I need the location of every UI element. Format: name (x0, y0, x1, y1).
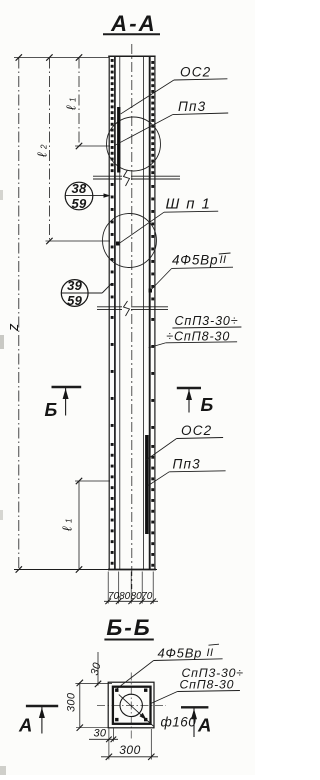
node section marker Б right (177, 387, 201, 389)
wire leader Шп1 (120, 212, 165, 243)
svg-text:80: 80 (119, 591, 131, 602)
svg-text:÷СпП8-30: ÷СпП8-30 (166, 330, 230, 344)
svg-text:Б: Б (201, 395, 214, 415)
node detail circle 1 (107, 117, 161, 171)
wire leader ОС2 lower (146, 439, 177, 461)
svg-text:300: 300 (66, 692, 78, 712)
svg-text:4Ф5Вр: 4Ф5Вр (158, 646, 203, 661)
svg-text:4Ф5Вр: 4Ф5Вр (172, 253, 218, 268)
node dimension z (14, 57, 109, 59)
scan smudges (edge artifacts) (0, 335, 4, 349)
svg-text:ОС2: ОС2 (180, 65, 211, 80)
node column top edge (108, 55, 155, 57)
node section marker А left (26, 705, 58, 707)
wire leader Пп3 top (114, 115, 172, 146)
wire leader Пп3 lower (148, 472, 170, 486)
svg-text:Б-Б: Б-Б (106, 615, 151, 640)
svg-text:А: А (197, 715, 212, 736)
node dimension 300 bottom (150, 729, 152, 760)
wire leader ОС2 top (121, 80, 174, 114)
svg-text:Пп3: Пп3 (178, 99, 206, 114)
node wall hatch dots (111, 59, 114, 62)
node section square inner (113, 687, 151, 724)
wire left wall outer (108, 56, 110, 570)
wire leader СпП8-30 (149, 343, 166, 348)
node column bottom edge (14, 569, 157, 571)
svg-text:59: 59 (71, 196, 87, 211)
node dimension l1 bottom (78, 481, 80, 570)
node break line 1 (93, 175, 122, 177)
node balloon 38/59 (65, 182, 93, 210)
node corner rebar dots (115, 689, 118, 692)
svg-text:Шп1: Шп1 (166, 196, 217, 213)
svg-text:38: 38 (71, 181, 87, 196)
svg-text:1: 1 (65, 519, 74, 523)
svg-text:СпП3-30÷: СпП3-30÷ (175, 314, 239, 328)
svg-text:СпП8-30: СпП8-30 (180, 678, 235, 692)
wire right wall outer (154, 56, 156, 570)
node dimension l2 (48, 58, 50, 242)
wire leader 4Ф5Вр section (117, 661, 154, 690)
wire Ф160 leader diagonal (119, 695, 154, 727)
svg-text:z: z (5, 323, 22, 332)
wire leader СпП section (151, 692, 178, 704)
wire leader 4Ф5Вр (151, 268, 172, 290)
svg-text:ОС2: ОС2 (181, 423, 212, 438)
node dimension 300 left (79, 682, 81, 727)
svg-text:II: II (220, 254, 227, 266)
wire right wall inner (143, 56, 145, 570)
node break line 2 (97, 306, 122, 308)
wire left wall inner (119, 56, 121, 570)
node section square outer (108, 682, 154, 728)
svg-text:39: 39 (67, 278, 83, 293)
svg-text:300: 300 (119, 743, 141, 757)
node balloon 39/59 (61, 280, 88, 307)
node dimension l1 top (78, 58, 80, 147)
svg-text:А: А (18, 715, 33, 736)
node dimension 30 top (97, 652, 99, 686)
wire section centerline horizontal (97, 704, 166, 706)
node section marker А right (181, 706, 208, 708)
node hole circle (120, 694, 142, 716)
svg-text:Пп3: Пп3 (173, 457, 201, 472)
svg-text:II: II (207, 647, 214, 659)
svg-text:1: 1 (69, 98, 78, 102)
wire centerline (131, 44, 133, 589)
svg-text:2: 2 (40, 144, 49, 150)
svg-text:70: 70 (141, 591, 153, 602)
svg-text:59: 59 (67, 293, 83, 308)
svg-text:Б: Б (45, 400, 58, 420)
wire section centerline vertical (130, 673, 132, 741)
svg-text:А-А: А-А (110, 11, 157, 36)
node detail circle 2 (103, 214, 157, 268)
node dimension 70-80-80-70 (107, 572, 109, 604)
wire right wall thick (149, 56, 151, 570)
svg-text:70: 70 (108, 591, 120, 602)
node section marker Б left (52, 386, 82, 388)
node rebar bar lower right (ОС2) (145, 435, 149, 534)
svg-text:30: 30 (94, 728, 107, 740)
node dimension 30 bottom (108, 729, 110, 760)
wire left wall thick (114, 56, 116, 570)
svg-text:ф160: ф160 (161, 715, 197, 730)
node rebar bar top left (Пп3) (117, 107, 120, 173)
